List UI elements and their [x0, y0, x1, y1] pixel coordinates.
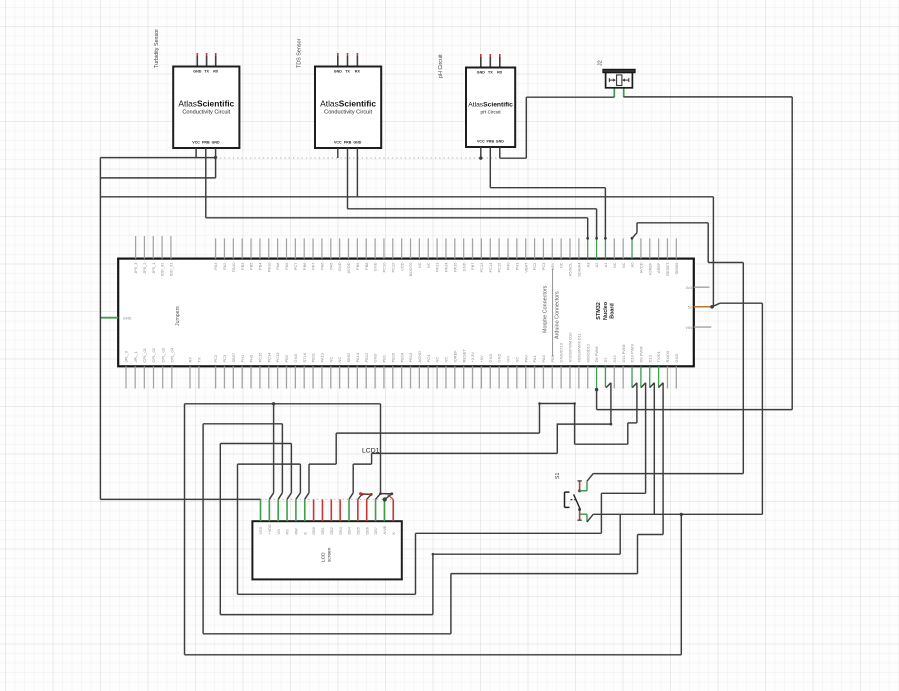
svg-text:CPL_02: CPL_02 — [151, 347, 156, 362]
wire pH GND to J2 riser — [500, 97, 615, 158]
svg-text:PB9: PB9 — [355, 262, 360, 270]
svg-text:VSS: VSS — [259, 526, 263, 534]
svg-text:A2: A2 — [594, 262, 599, 268]
board right pins 3v3 5v VIN — [694, 287, 712, 327]
svg-text:PA8: PA8 — [275, 262, 280, 270]
svg-text:PC2: PC2 — [532, 262, 537, 271]
STM32 Nucleo board U4 body — [118, 259, 694, 367]
svg-text:GND: GND — [496, 140, 504, 144]
wire turbidity PRB to board pin — [206, 148, 589, 240]
svg-text:Jumpers: Jumpers — [175, 306, 181, 326]
svg-text:RX: RX — [188, 357, 193, 363]
wire 5V bus to LCD pin2/pin15 — [185, 402, 684, 655]
svg-text:PC14: PC14 — [266, 352, 271, 363]
sensor U1 Atlas Scientific Conductivity Circuit (Turbidity Sensor) — [154, 29, 239, 148]
svg-text:NC: NC — [559, 262, 564, 268]
wire turbidity GND stub — [215, 148, 217, 178]
svg-text:JP5_2: JP5_2 — [142, 262, 147, 274]
svg-text:PA2: PA2 — [222, 262, 227, 270]
svg-text:NC: NC — [435, 357, 440, 363]
wire LCD pin5 loop — [238, 383, 646, 595]
svg-text:RW: RW — [295, 528, 299, 535]
svg-text:+VDD: +VDD — [268, 524, 272, 534]
svg-text:RESET: RESET — [665, 262, 670, 276]
svg-text:GND: GND — [212, 141, 220, 145]
svg-text:CPL_01: CPL_01 — [142, 347, 147, 362]
svg-text:NC: NC — [337, 357, 342, 363]
svg-text:AtlasScientific: AtlasScientific — [320, 98, 376, 108]
svg-text:TX: TX — [488, 70, 493, 74]
ratsnest dotted top bus — [216, 156, 500, 159]
svg-text:LCD: LCD — [321, 552, 327, 562]
svg-text:CPL_03: CPL_03 — [160, 347, 165, 362]
svg-text:JPL_3: JPL_3 — [124, 350, 129, 362]
svg-text:GND: GND — [373, 262, 378, 271]
svg-text:A5/SCL: A5/SCL — [568, 262, 573, 277]
svg-text:PB12: PB12 — [364, 352, 369, 363]
wire GND to LCD VSS — [100, 498, 260, 500]
svg-text:AtlasScientific: AtlasScientific — [178, 98, 234, 108]
svg-text:PC13: PC13 — [479, 262, 484, 273]
svg-text:GND: GND — [353, 141, 361, 145]
svg-text:IOREF: IOREF — [647, 262, 652, 275]
sensor U2 Atlas Scientific Conductivity Circuit (TDS Sensor) — [297, 38, 382, 148]
svg-text:VCC: VCC — [192, 141, 200, 145]
svg-text:DB4: DB4 — [348, 527, 352, 534]
svg-text:NC: NC — [612, 262, 617, 268]
svg-text:RS: RS — [286, 529, 290, 535]
svg-text:VIN: VIN — [685, 325, 692, 330]
svg-text:D8 PWM: D8 PWM — [594, 347, 599, 363]
svg-text:PC2: PC2 — [213, 354, 218, 363]
wire TDS VCC stub — [337, 148, 339, 158]
svg-text:GND: GND — [674, 354, 679, 363]
svg-text:D7: D7 — [603, 357, 608, 363]
svg-text:SDA/A4: SDA/A4 — [576, 262, 581, 277]
svg-text:NC: NC — [328, 357, 333, 363]
wire GND left vertical — [99, 158, 101, 500]
svg-text:SB57: SB57 — [231, 352, 236, 363]
board bottom jumper pins JPL/CPL — [124, 347, 175, 388]
svg-text:Conductivity Circuit: Conductivity Circuit — [324, 109, 372, 115]
svg-text:GND: GND — [461, 262, 466, 271]
svg-text:screen: screen — [327, 547, 333, 562]
svg-text:J2: J2 — [598, 60, 604, 66]
svg-text:PC7: PC7 — [293, 262, 298, 271]
svg-text:STLK: STLK — [302, 352, 307, 362]
svg-text:GND/D710: GND/D710 — [559, 342, 564, 362]
svg-text:TX/D1: TX/D1 — [656, 350, 661, 362]
switch S1 — [555, 473, 587, 522]
svg-text:PA10: PA10 — [231, 262, 236, 272]
svg-text:PB1: PB1 — [382, 354, 387, 362]
wire 5v rail y514 — [587, 303, 762, 522]
svg-text:VO: VO — [277, 529, 281, 535]
svg-text:MISO/D12: MISO/D12 — [585, 343, 590, 362]
svg-text:PC12: PC12 — [390, 262, 395, 273]
svg-text:VDD: VDD — [399, 262, 404, 271]
svg-text:A3: A3 — [585, 262, 590, 268]
svg-text:PB5: PB5 — [249, 262, 254, 270]
svg-text:PRB: PRB — [202, 141, 210, 145]
svg-text:PB10: PB10 — [266, 262, 271, 273]
svg-text:NC: NC — [417, 262, 422, 268]
svg-text:U5V: U5V — [550, 262, 555, 270]
svg-text:D13: D13 — [647, 354, 652, 362]
svg-text:D12: D12 — [612, 354, 617, 362]
svg-text:AtlasScientific: AtlasScientific — [468, 101, 513, 108]
svg-text:NC: NC — [426, 262, 431, 268]
svg-text:PA15: PA15 — [452, 262, 457, 272]
svg-text:PB8: PB8 — [364, 262, 369, 270]
svg-text:DB0: DB0 — [312, 527, 316, 534]
svg-text:PC3: PC3 — [222, 354, 227, 363]
wire TDS GND stub — [356, 148, 358, 197]
wire board pin A0 to switch top — [587, 223, 743, 481]
svg-text:GND: GND — [193, 69, 201, 73]
svg-text:SSOn/PWM D10: SSOn/PWM D10 — [568, 332, 573, 363]
svg-text:RX: RX — [213, 69, 219, 73]
svg-text:PA14: PA14 — [444, 262, 449, 272]
svg-text:PA9: PA9 — [284, 262, 289, 270]
svg-text:CPL_04: CPL_04 — [169, 347, 174, 362]
sensor U3 Atlas Scientific pH Circuit — [438, 54, 515, 147]
svg-text:TDS Sensor: TDS Sensor — [297, 38, 303, 68]
svg-text:3v3: 3v3 — [686, 285, 693, 290]
svg-text:RX/D0: RX/D0 — [665, 350, 670, 363]
svg-text:A1: A1 — [603, 262, 608, 268]
svg-text:PC10: PC10 — [382, 262, 387, 273]
svg-text:IOREF: IOREF — [452, 350, 457, 363]
svg-text:GND: GND — [334, 69, 342, 73]
board left GND pin — [100, 317, 118, 319]
wire J2 right to board pin via right side — [595, 97, 792, 410]
LCD1 ratsnest dotted line — [248, 498, 394, 500]
svg-text:PA4: PA4 — [541, 354, 546, 362]
svg-text:PRB: PRB — [487, 140, 495, 144]
svg-text:BOOT0: BOOT0 — [408, 262, 413, 276]
svg-text:SB909: SB909 — [674, 262, 679, 275]
svg-text:AGND: AGND — [417, 351, 422, 363]
svg-text:Arduino Connectors: Arduino Connectors — [554, 291, 560, 339]
svg-text:PB13: PB13 — [408, 352, 413, 363]
svg-text:Turbidity Sensor: Turbidity Sensor — [154, 29, 160, 68]
board bottom RX TX pins — [188, 357, 202, 389]
svg-text:PA13: PA13 — [320, 352, 325, 362]
wire LCD pin3 loop — [203, 383, 663, 634]
svg-text:+3.3V: +3.3V — [470, 352, 475, 363]
svg-text:PA13: PA13 — [435, 262, 440, 272]
LCD1 pin row — [259, 499, 396, 534]
svg-text:TX: TX — [345, 69, 350, 73]
svg-text:D9 PWM: D9 PWM — [638, 347, 643, 363]
svg-text:AVDD: AVDD — [638, 262, 643, 273]
svg-text:PC15: PC15 — [258, 352, 263, 363]
svg-text:GND: GND — [337, 262, 342, 271]
svg-text:TX: TX — [204, 69, 209, 73]
svg-text:PC14: PC14 — [488, 262, 493, 273]
wire turbidity GND bus y178 — [100, 177, 215, 179]
board top jumper pins JP5/IDD — [133, 236, 173, 276]
wire bridge LCD pin12-pin13 with ratsnest — [358, 492, 393, 499]
svg-text:SB62: SB62 — [346, 352, 351, 363]
svg-text:PC13: PC13 — [275, 352, 280, 363]
svg-text:PH0: PH0 — [506, 262, 511, 271]
svg-text:A/VB: A/VB — [383, 525, 387, 534]
svg-text:PB3: PB3 — [240, 262, 245, 270]
svg-text:DB3: DB3 — [339, 527, 343, 534]
svg-text:PA3: PA3 — [213, 262, 218, 270]
svg-text:PH0: PH0 — [249, 354, 254, 363]
wire TDS PRB to board pin — [348, 148, 598, 240]
svg-text:GND: GND — [123, 315, 132, 320]
wire bus y197 to 5v pin — [100, 197, 713, 307]
svg-text:JPL_1: JPL_1 — [133, 350, 138, 362]
svg-text:GND: GND — [497, 354, 502, 363]
svg-text:PB2: PB2 — [284, 354, 289, 362]
LCD1 screen body — [252, 448, 401, 580]
crystal J2 — [598, 60, 636, 97]
svg-text:Board: Board — [610, 303, 616, 319]
svg-text:DB6: DB6 — [365, 527, 369, 534]
svg-text:+5V: +5V — [479, 355, 484, 363]
wire pH GND stub — [499, 147, 501, 158]
svg-text:JP5_1: JP5_1 — [151, 262, 156, 274]
svg-text:PH1: PH1 — [514, 262, 519, 271]
svg-text:PA7: PA7 — [311, 262, 316, 270]
wire LCD pin4 loop — [220, 444, 620, 615]
svg-text:NC: NC — [514, 357, 519, 363]
svg-text:pH Circuit: pH Circuit — [481, 109, 502, 114]
svg-text:MOSI/PWM D11: MOSI/PWM D11 — [576, 332, 581, 362]
svg-text:DB2: DB2 — [330, 527, 334, 534]
svg-text:PC4: PC4 — [426, 354, 431, 363]
svg-text:PB14: PB14 — [399, 352, 404, 363]
svg-text:RX: RX — [355, 69, 361, 73]
svg-text:VCC: VCC — [334, 141, 342, 145]
svg-text:IDD_01: IDD_01 — [169, 262, 174, 276]
svg-text:D10 PWM: D10 PWM — [630, 344, 635, 362]
svg-text:DB7: DB7 — [374, 527, 378, 534]
svg-text:GND: GND — [477, 70, 485, 74]
wire LCD pin6 loop — [305, 383, 637, 500]
svg-text:PB7: PB7 — [470, 262, 475, 270]
svg-text:RESET: RESET — [461, 349, 466, 363]
svg-text:PA5: PA5 — [328, 262, 333, 270]
wire pH PRB to board pin — [490, 147, 607, 240]
board top main pin row — [213, 238, 679, 276]
svg-text:GND: GND — [293, 354, 298, 363]
svg-text:GND: GND — [373, 354, 378, 363]
svg-text:Nucleo: Nucleo — [603, 301, 609, 320]
svg-text:TX: TX — [197, 357, 202, 362]
svg-text:D11 PWM: D11 PWM — [621, 345, 626, 363]
svg-text:A0: A0 — [630, 262, 635, 268]
svg-text:PB6: PB6 — [302, 262, 307, 270]
svg-text:VCC: VCC — [477, 140, 485, 144]
svg-text:S1: S1 — [555, 473, 561, 479]
svg-text:Conductivity Circuit: Conductivity Circuit — [182, 109, 230, 115]
svg-text:VBAT: VBAT — [523, 262, 528, 273]
svg-text:NC: NC — [444, 357, 449, 363]
svg-text:VIN: VIN — [506, 356, 511, 363]
wire GND bus y157 — [100, 156, 217, 159]
svg-text:DB1: DB1 — [321, 527, 325, 534]
svg-text:DB5: DB5 — [356, 527, 360, 534]
wire LCD pin11 loop — [349, 383, 612, 500]
wire pH VCC stub — [480, 147, 482, 158]
svg-text:AREF: AREF — [656, 262, 661, 273]
svg-text:PA14: PA14 — [355, 352, 360, 362]
svg-text:PA6: PA6 — [320, 262, 325, 270]
svg-text:RX: RX — [497, 70, 503, 74]
svg-text:PH1: PH1 — [240, 354, 245, 363]
svg-text:JP5_3: JP5_3 — [133, 262, 138, 274]
svg-text:STM32: STM32 — [596, 302, 602, 319]
svg-text:PB0: PB0 — [550, 354, 555, 362]
svg-text:PC3: PC3 — [541, 262, 546, 271]
board bottom main pin row — [213, 332, 679, 390]
svg-text:PRB: PRB — [344, 141, 352, 145]
svg-text:PC15: PC15 — [497, 262, 502, 273]
svg-text:Morphe Connectors: Morphe Connectors — [542, 285, 548, 333]
svg-text:PB11: PB11 — [311, 352, 316, 362]
svg-text:PA1: PA1 — [532, 354, 537, 362]
svg-text:GND: GND — [488, 354, 493, 363]
svg-text:pH Circuit: pH Circuit — [438, 54, 444, 78]
svg-text:5v: 5v — [688, 305, 692, 310]
svg-text:NC: NC — [621, 262, 626, 268]
svg-text:IDD_02: IDD_02 — [160, 262, 165, 276]
wire turbidity VCC stub — [195, 148, 197, 158]
svg-text:PB4: PB4 — [258, 262, 263, 270]
svg-text:AVDD: AVDD — [346, 262, 351, 273]
svg-text:PA0: PA0 — [523, 354, 528, 362]
svg-text:PB15: PB15 — [390, 352, 395, 363]
